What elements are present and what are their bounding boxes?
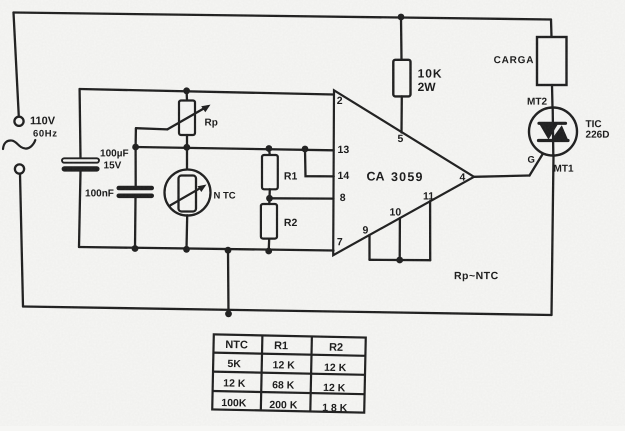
wire pins 9-10-11 bus [370, 259, 431, 262]
wire pin 11 [429, 201, 431, 260]
wire mid bus y147 [136, 147, 334, 150]
wire 10K top lead [400, 17, 403, 60]
thermistor NTC diagonal [170, 187, 203, 206]
resistor R1 body [262, 155, 278, 189]
wire R1 bottom lead [268, 189, 271, 198]
node junction top wire at 10K [398, 14, 405, 21]
wire 100nF top lead [134, 147, 136, 186]
wire inner left lower [79, 172, 81, 248]
triac Q1 circle [529, 108, 577, 156]
wire NTC top lead [186, 147, 188, 170]
node junction top wire at Rp [183, 87, 190, 94]
wire triac vertical through [552, 108, 555, 155]
wire pin 14 branch [305, 149, 334, 176]
resistor R2 body [261, 204, 277, 239]
wire outer bottom [23, 307, 552, 316]
triac bottom bar [539, 139, 569, 142]
capacitor C2 100nF plate top [117, 186, 155, 191]
wire R1 top lead [268, 149, 271, 156]
node junction rail at 100nF [132, 245, 139, 252]
triac top bar [539, 122, 566, 125]
wire carga to triac [551, 85, 554, 108]
potentiometer Rp arrow [167, 107, 207, 130]
capacitor C2 100nF plate bottom [117, 194, 155, 199]
potentiometer Rp body [179, 101, 195, 136]
wire Rp top lead [185, 91, 188, 101]
node junction rail at R2 [265, 248, 272, 255]
paper noise overlay [0, 0, 1, 1]
wire inner bottom rail [79, 247, 334, 251]
node junction bus at Rp [183, 144, 190, 151]
thermistor NTC circle [165, 170, 211, 216]
AC sine symbol [3, 140, 35, 149]
op-amp U1 CA3059 triangle [333, 90, 474, 255]
wire outer top [14, 13, 552, 20]
wire pin 8 [270, 197, 334, 200]
wire outer left upper [14, 13, 19, 117]
wire pin 4 [474, 176, 530, 177]
wire NTC bottom lead [185, 215, 188, 249]
wire 10K to pin 5 [400, 96, 403, 132]
wire rail to outer bottom [227, 250, 230, 314]
terminal top circle [14, 117, 23, 126]
wire inner left upper [78, 89, 81, 159]
wire inner top (pin 2 line) [80, 89, 334, 95]
node junction bus at 100nF [132, 144, 139, 151]
resistor 10K body [393, 60, 410, 97]
wire R2 bottom lead [268, 239, 271, 251]
wire pin 9 [368, 235, 370, 260]
load CARGA box [537, 37, 567, 85]
wire pin 10 [399, 218, 401, 260]
wire 100nF bottom lead [134, 198, 137, 249]
node junction pin10 bus [396, 257, 403, 264]
capacitor C1 100uF plate top [62, 158, 99, 162]
node junction rail at NTC [183, 246, 190, 253]
wire top to carga [550, 20, 553, 38]
capacitor C1 100uF plate bottom [62, 166, 100, 171]
node junction bus at pin14 branch [302, 146, 309, 153]
triac triangle down [539, 124, 558, 140]
node junction outer bottom [225, 310, 232, 317]
node junction rail at down-wire [225, 247, 232, 254]
wire Rp wiper down [134, 128, 137, 147]
wire outer left lower [20, 174, 23, 307]
wire triac to bottom [552, 156, 554, 316]
wire Rp bottom lead [186, 135, 188, 147]
table NTC R1 R2 [212, 334, 366, 414]
wire R2 top lead [268, 198, 271, 204]
thermistor NTC body [179, 176, 197, 212]
triac triangle up [551, 125, 569, 141]
terminal bottom circle [15, 164, 24, 173]
wire gate diagonal [530, 141, 552, 176]
node junction R1-R2 [266, 195, 273, 202]
node junction bus at R1 [266, 145, 273, 152]
wire Rp wiper horizontal [136, 128, 167, 129]
